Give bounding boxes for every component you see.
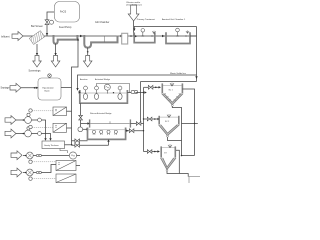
chemical train 3 [11,151,22,160]
gauge dashed 1 [29,109,32,112]
valve V5 [129,129,134,133]
wire basin B4 exit [126,130,144,132]
wire chlorine to main [133,21,135,36]
box disposal [189,176,205,188]
wire hopper3 underflow [167,171,188,177]
wire hopper3 overflow [176,150,179,173]
aeration basin B3 [80,90,128,103]
weir W2 [186,31,189,34]
svg-text:Influent: Influent [1,35,10,39]
svg-text:Primary Treatment: Primary Treatment [137,18,155,21]
flume box F1 [121,35,124,37]
wire effluent down right [190,27,197,82]
wire clarifier feed trunk [143,88,145,152]
weir W3 on hopper1 [170,83,174,86]
basin B1 [134,33,155,43]
pump P6 [69,152,76,159]
channel RAS basin [89,119,91,127]
weir W1 [152,31,155,34]
hopper H2 [159,116,179,125]
svg-text:Bar Screen: Bar Screen [31,25,44,28]
tank T1 chemical tank [55,2,80,23]
wire hopper1 overflow [182,89,194,156]
heat exchanger HX1 [53,107,67,116]
valve V3 [136,122,141,126]
chemical train 1 [5,116,16,125]
gauge dashed 2 [29,125,32,128]
valve V8 [72,144,109,146]
svg-text:Equalization: Equalization [43,87,55,90]
svg-text:Gravity Thickener: Gravity Thickener [44,144,59,147]
wire hopper2 overflow [182,123,198,125]
wire sludge header [182,155,195,157]
diffuser D2 [100,130,103,133]
heat exchanger HX4 [56,174,76,183]
grit chamber GC1 [84,35,117,48]
bar screen S1 [29,31,44,45]
valve V0 on tank line [45,20,49,25]
svg-text:Chlorine and/or: Chlorine and/or [126,1,141,4]
tank T2 digester [38,78,61,100]
wire B4 bottom feed [108,141,110,146]
aerator A3 [118,86,122,90]
wire arrow between basins [162,35,165,37]
diffuser D3 [107,130,110,133]
thickener box TB1 [42,141,65,149]
wire hopper1 entry [144,86,159,88]
wire grit drop 1 [55,44,57,55]
valve V2 [147,117,152,121]
block arrow chlorine down [128,5,139,21]
wire transfer line to aeration [78,75,197,90]
valve V4 vertical [79,115,83,120]
svg-text:Aerated Grit Chamber 1: Aerated Grit Chamber 1 [162,18,186,21]
gauge dashed 3 [29,160,32,163]
wire septage to tank [21,87,38,89]
wire RAS top line [134,27,196,31]
blower BL1 [104,84,110,90]
gauge dashed 4 [29,177,32,180]
probe mark [104,36,106,42]
digester basin B4 [88,128,126,140]
svg-text:Waste Solids line: Waste Solids line [170,72,187,75]
svg-text:other disinfectant: other disinfectant [126,4,142,7]
svg-text:Screenings: Screenings [29,70,42,73]
mixer M2 [176,28,180,32]
hopper H3 [161,146,175,157]
wire basin drop to channel [80,103,82,127]
wire arrow into grit chamber [80,35,83,37]
svg-text:SC 1: SC 1 [169,90,173,92]
wire main line top [23,35,197,37]
hopper H1 [162,83,182,93]
block arrow waste 2 [83,56,92,68]
svg-text:FeCl3: FeCl3 [60,12,67,14]
wire thickener tab [60,149,68,154]
mixer M1 [141,29,145,33]
wire tank T1 outlet [47,12,54,36]
wire hopper1 underflow [172,106,181,155]
chemical train 4 [11,168,22,177]
diffuser D1 [92,130,95,133]
svg-text:SC 2: SC 2 [165,121,169,123]
svg-text:Basin: Basin [45,91,51,93]
valve V1 [148,85,153,89]
wire hopper3 entry [144,151,159,153]
screw pump SP1 [54,35,78,44]
gauge G0 [50,20,54,24]
svg-text:Activated Sludge: Activated Sludge [95,78,111,81]
wire screenings drop [36,44,38,55]
wire hopper2 entry [144,118,159,120]
aerator A2 [95,86,99,90]
mixer M3 on tank [48,74,52,78]
svg-text:Aeration: Aeration [80,78,87,81]
weir W5 on hopper3 [168,144,172,147]
svg-text:Grit Chamber: Grit Chamber [95,21,110,24]
diffuser D4 [114,130,117,133]
wire hopper2 underflow [168,137,182,140]
wire recycle from tank to main [61,39,78,145]
weir W4 on hopper2 [167,114,171,117]
heat exchanger HX3 [56,161,76,171]
block arrow influent [12,32,23,41]
feed circle FC1 [78,127,83,132]
block arrow waste 1 [51,56,60,68]
aerator A1 [84,86,88,90]
block arrow septage [10,83,21,92]
pump P5 after basin [127,92,131,94]
wire channel exit [130,123,143,125]
wire thickener out [65,144,73,146]
svg-text:Return Activated Sludge: Return Activated Sludge [90,112,112,115]
svg-text:Feed Pump: Feed Pump [59,26,72,29]
wire channel feed stub [81,123,89,125]
block arrow screenings [33,56,42,68]
valve V6 [147,150,152,154]
chemical train 2 [5,129,16,138]
basin B2 [166,32,190,43]
svg-text:Septage: Septage [1,87,11,90]
valve V7 [72,140,88,142]
heat exchanger HX2 [53,123,67,132]
air header pipe [97,84,130,93]
wire grit drop 2 [87,51,89,53]
